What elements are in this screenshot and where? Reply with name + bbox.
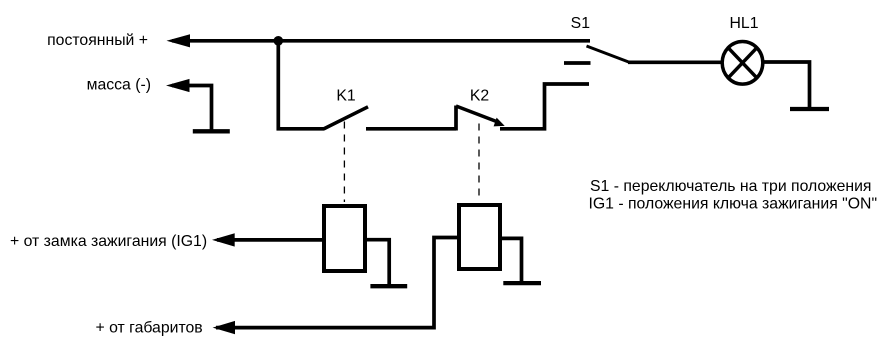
dashed link K1 [343,122,345,203]
ground bar (K2 coil) [503,281,541,285]
relay coil K1 [324,206,365,271]
svg-text:S1 - переключатель на три поло: S1 - переключатель на три положения [590,178,871,195]
svg-text:K1: K1 [336,88,356,105]
switch S1 middle contact stub [564,61,591,65]
wire: габариты arrowhead [213,321,235,334]
wire: junction drop to K1 contact [278,41,324,129]
svg-text:HL1: HL1 [730,15,759,32]
svg-text:S1: S1 [571,15,591,32]
wire: K2 output to S1 bottom contact [500,84,589,129]
svg-text:IG1 - положения ключа зажигани: IG1 - положения ключа зажигания "ON" [589,195,878,212]
wire: main +12V bus with left arrowhead [167,34,191,47]
svg-text:+ от габаритов: + от габаритов [96,320,203,337]
relay contact K2 blade with arrowhead [456,106,498,122]
svg-text:K2: K2 [470,88,489,105]
relay contact K1 blade [324,107,369,129]
relay contact K2 riser [454,106,458,131]
svg-text:+ от замка зажигания (IG1): + от замка зажигания (IG1) [10,233,207,250]
svg-text:постоянный +: постоянный + [47,32,148,49]
ground bar (масса) [193,129,230,133]
wire: K2 coil left to габариты riser [216,238,457,328]
wire: K1 contact to K2 contact [366,127,456,131]
ground bar (lamp) [790,107,829,111]
wire: S1 to lamp HL1 [628,60,723,64]
relay coil K2 [459,205,500,269]
ground bar (K1 coil) [370,284,407,288]
junction dot on +12V bus [274,36,284,46]
wire: ground lead with left arrowhead [166,79,190,92]
wire: K1 coil to ground [367,240,389,284]
dashed link K2 [478,124,480,202]
switch S1 blade [587,46,631,63]
wire: lamp to ground [763,62,810,107]
wire: K2 coil to ground [502,238,522,281]
svg-text:масса (-): масса (-) [87,77,151,94]
wire: IG1 arrow to K1 coil [212,233,235,246]
